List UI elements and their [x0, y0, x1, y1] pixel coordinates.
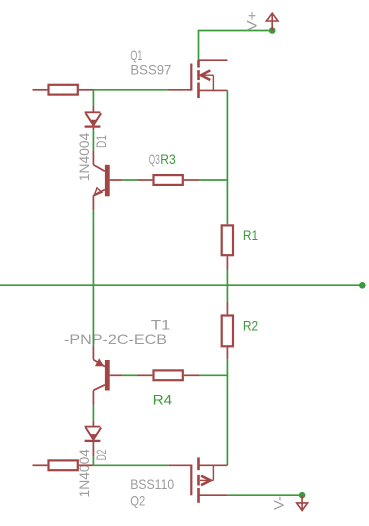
svg-text:V-: V- — [271, 496, 287, 510]
wire D1 cathode to Q3 collector — [92, 130, 94, 150]
source horizontal — [199, 494, 228, 496]
diode D1 (1N4004) — [85, 106, 102, 130]
svg-text:1N4004: 1N4004 — [76, 132, 92, 181]
wire V+ net from Q1 drain to supply dot — [199, 31, 273, 61]
svg-text:Q3: Q3 — [149, 151, 160, 167]
wire T1 base to R4 — [123, 374, 138, 376]
wire R1 to R2 — [226, 270, 228, 302]
wire down to D1 — [92, 90, 94, 106]
svg-text:Q2: Q2 — [130, 492, 145, 508]
svg-text:D2: D2 — [93, 450, 109, 461]
resistor (bottom-left, unnamed) — [33, 460, 94, 470]
junction dot V- — [299, 492, 306, 499]
wire R2 to Q2 — [226, 359, 228, 465]
svg-text:R2: R2 — [243, 318, 258, 334]
transistor Q1 (BSS97 MOSFET) — [168, 60, 227, 98]
svg-text:R4: R4 — [153, 391, 173, 407]
wire V- net — [227, 494, 302, 496]
svg-text:BSS110: BSS110 — [130, 476, 174, 492]
transistor Q2 (BSS110 MOSFET) — [168, 457, 227, 502]
drain horizontal — [199, 464, 228, 466]
channel bar 3 + source pin — [197, 488, 200, 503]
wire Q3 emitter to T1 emitter — [92, 210, 94, 346]
gate bar — [190, 465, 192, 496]
supply symbol V- — [297, 495, 308, 510]
resistor R1 — [222, 225, 233, 269]
wire Q3 base to R3 — [123, 179, 138, 181]
svg-text:Q1: Q1 — [130, 47, 142, 63]
resistor R4 — [138, 370, 200, 380]
diode D2 (1N4004) — [85, 421, 102, 457]
bulk arrow line — [200, 479, 213, 481]
bulk arrow line — [201, 74, 213, 76]
svg-text:R3: R3 — [160, 151, 176, 167]
gate wire — [168, 89, 191, 91]
wire R3 to right column — [199, 179, 227, 181]
channel bar 1 — [197, 60, 200, 68]
svg-text:R1: R1 — [243, 227, 258, 243]
wire gate net (top) — [93, 89, 168, 91]
channel bar 2 — [197, 475, 200, 486]
junction dot V+ — [269, 27, 276, 34]
gate bar — [190, 64, 192, 91]
bulk arrowhead — [201, 476, 210, 486]
channel bar 1 + drain pin — [197, 457, 200, 470]
svg-text:1N4004: 1N4004 — [76, 449, 92, 498]
junction dot output — [359, 282, 366, 289]
transistor T1 (PNP) — [93, 346, 122, 405]
svg-text:BSS97: BSS97 — [130, 62, 171, 78]
resistor R3 — [138, 175, 200, 185]
supply symbol V+ — [266, 13, 278, 30]
wire R4 to right column — [199, 374, 227, 376]
bulk arrowhead — [201, 70, 210, 80]
bulk vertical — [212, 465, 214, 480]
gate wire — [168, 464, 191, 466]
source horizontal — [199, 89, 228, 91]
bulk vertical — [212, 75, 214, 90]
wire T1 collector to D2 — [92, 405, 94, 421]
channel bar 3 + source pin — [197, 83, 200, 99]
svg-text:V+: V+ — [244, 11, 260, 31]
svg-text:-PNP-2C-ECB: -PNP-2C-ECB — [64, 331, 167, 347]
wire D2 cathode to bottom junction — [92, 456, 94, 465]
wire gate net (bottom) — [93, 464, 168, 466]
channel bar 2 — [197, 70, 200, 80]
resistor (top-left, unnamed) — [33, 85, 94, 95]
transistor Q3 (PNP) — [93, 150, 122, 210]
wire output net (long horizontal) — [0, 284, 362, 286]
drain horizontal — [199, 59, 228, 61]
resistor R2 — [222, 301, 233, 359]
svg-text:D1: D1 — [93, 135, 109, 148]
wire right column: source Q1 down to R1 — [226, 90, 228, 224]
